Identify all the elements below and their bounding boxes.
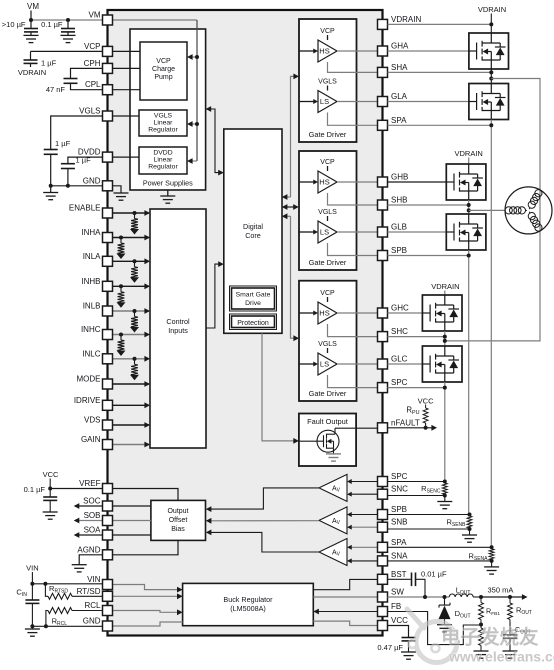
sense amp B (Av) — [319, 507, 347, 534]
svg-text:RSENC: RSENC — [421, 484, 441, 495]
flying capacitor 47nF wires — [71, 68, 103, 78]
svg-text:AGND: AGND — [77, 545, 100, 554]
svg-text:VCC: VCC — [43, 470, 59, 479]
svg-text:VCP: VCP — [156, 58, 171, 65]
pin SPA (right) — [378, 120, 388, 130]
svg-text:ROUT: ROUT — [516, 606, 532, 617]
svg-text:350 mA: 350 mA — [488, 586, 514, 595]
svg-text:MODE: MODE — [77, 375, 101, 384]
wire SOB output — [75, 520, 151, 522]
SPC node wire — [444, 382, 446, 482]
VCP charge pump block — [140, 42, 187, 100]
ground under power supplies block — [160, 196, 175, 203]
svg-text:SOC: SOC — [83, 497, 101, 506]
pin GLB (right) — [378, 227, 388, 237]
wire VREF to offset bias block — [113, 489, 179, 501]
pin SOC (left) — [103, 501, 113, 511]
svg-text:Regulator: Regulator — [148, 164, 178, 171]
pin SPB (right) — [378, 251, 388, 261]
svg-text:Drive: Drive — [245, 300, 261, 307]
pin SNA (right) — [378, 556, 388, 566]
ground under RSENA — [491, 561, 493, 567]
svg-text:RFB1: RFB1 — [486, 607, 500, 618]
svg-text:Control: Control — [166, 317, 190, 326]
VDRAIN wire phase C — [444, 291, 446, 296]
svg-text:>10 µF: >10 µF — [2, 20, 26, 29]
wire VIN pin to buck — [113, 585, 182, 590]
ground under 0.1uF cap — [61, 35, 76, 42]
VDRAIN wire phase A — [388, 23, 492, 25]
sense amp C SNC input — [349, 493, 378, 495]
svg-text:RT/SD: RT/SD — [77, 587, 101, 596]
flying capacitor 47nF — [64, 79, 78, 84]
pin DVDD (left) — [103, 152, 113, 162]
low-side MOSFET QC2 — [422, 346, 462, 382]
VCC bypass cap 0.47uF — [388, 626, 409, 638]
pin SNC (right) — [378, 489, 388, 499]
svg-text:GLA: GLA — [391, 92, 408, 101]
svg-text:Buck Regulator: Buck Regulator — [223, 595, 273, 604]
svg-text:Gate Driver: Gate Driver — [309, 258, 347, 267]
gate driver A LS buffer — [318, 91, 337, 113]
ground at VIN cluster — [31, 626, 33, 629]
arrow into gate driver A — [293, 74, 299, 80]
svg-text:Fault Output: Fault Output — [307, 417, 348, 426]
SPA node wire — [490, 120, 492, 548]
sense resistor RSENB — [467, 516, 472, 528]
wire buck to BST pin — [313, 579, 377, 589]
svg-text:SW: SW — [391, 588, 404, 597]
power supplies block ground stub — [167, 190, 169, 196]
svg-text:AV: AV — [332, 518, 341, 526]
feedback resistor RFB1 — [480, 597, 482, 603]
IC body (DRV8305 main outline) — [108, 10, 383, 636]
svg-text:VCP: VCP — [320, 159, 335, 166]
ground under DOUT — [437, 625, 452, 632]
pin GND (left) — [103, 181, 113, 191]
svg-text:INHB: INHB — [81, 277, 100, 286]
wire VDS to control inputs — [113, 424, 150, 426]
svg-text:SOB: SOB — [84, 511, 101, 520]
digital core to driver C bus — [291, 216, 298, 338]
wire GND pin to buck — [113, 622, 183, 626]
svg-text:GAIN: GAIN — [81, 435, 101, 444]
wire SOC output — [75, 505, 151, 507]
wire AGND to offset bias block — [113, 540, 179, 554]
svg-text:VDS: VDS — [84, 416, 100, 425]
svg-text:AV: AV — [332, 550, 341, 558]
sense amp C output wire — [208, 488, 319, 509]
gate driver B HS output wire — [337, 181, 378, 183]
svg-text:VGLS: VGLS — [318, 79, 337, 86]
pin INLB (left) — [103, 306, 113, 316]
svg-text:HS: HS — [319, 309, 329, 318]
control inputs block — [150, 209, 206, 448]
sense resistor RSENA — [489, 549, 494, 560]
svg-text:1 µF: 1 µF — [76, 156, 92, 165]
digital core block — [224, 129, 282, 333]
sense amp B SNB input — [349, 526, 378, 528]
gate driver C source-return wire — [328, 324, 378, 337]
wire RT/SD pin to buck — [113, 595, 182, 597]
pin IDRIVE (left) — [103, 400, 113, 410]
pin GLA (right) — [378, 97, 388, 107]
gate driver B source-return wire — [328, 193, 378, 205]
pulldown resistor on INHB — [119, 284, 123, 288]
pin INHC (left) — [103, 330, 113, 340]
gate driver A source-return wire — [328, 62, 378, 72]
sense amp B SPB input — [349, 514, 378, 516]
digital core to fault output wire — [262, 333, 297, 441]
watermark logo+text (decorative overlay) — [407, 609, 554, 665]
wire buck to SW pin — [313, 596, 377, 598]
low-side MOSFET QB2 — [446, 214, 486, 250]
pin SOB (left) — [103, 516, 113, 526]
pin SNB (right) — [378, 522, 388, 532]
svg-text:CPH: CPH — [84, 59, 101, 68]
svg-text:VGLS: VGLS — [318, 341, 337, 348]
wire INHC to control inputs — [113, 334, 150, 336]
svg-text:SPB: SPB — [391, 246, 407, 255]
pulldown resistor on ENABLE — [133, 211, 137, 215]
gate driver B HS buffer — [318, 171, 337, 193]
wire MODE to control inputs — [113, 383, 150, 385]
internal ground at GND pin — [114, 193, 129, 200]
svg-text:(LM5008A): (LM5008A) — [230, 604, 266, 613]
high-side MOSFET QA1 — [469, 33, 509, 69]
pin BST (right) — [378, 574, 388, 584]
svg-text:GND: GND — [83, 617, 101, 626]
buck regulator block U2 — [183, 583, 314, 625]
wire GLB to gate — [388, 231, 447, 233]
wire SPA to sense resistor — [388, 546, 492, 548]
pin SPC (right) — [378, 477, 388, 487]
VCP capacitor 1uF wire — [31, 50, 103, 52]
svg-text:INLB: INLB — [83, 302, 101, 311]
ground under 0.47uF cap — [401, 652, 416, 659]
pin CPL (left) — [103, 85, 113, 95]
feedback resistor RFB2 — [480, 625, 482, 629]
control-inputs to digital-core link — [206, 264, 222, 328]
svg-text:BST: BST — [391, 570, 407, 579]
branch arrow into DVDD regulator — [189, 160, 197, 162]
protection block — [230, 314, 277, 330]
VGLS linear regulator block — [139, 110, 187, 136]
wire GHC to gate — [388, 312, 423, 314]
svg-text:Linear: Linear — [154, 157, 174, 164]
core-driver B bidirectional link — [283, 206, 297, 208]
svg-text:1 µF: 1 µF — [41, 59, 57, 68]
ground under RSENB — [469, 529, 471, 535]
svg-text:Offset: Offset — [169, 517, 188, 524]
svg-text:0.47 µF: 0.47 µF — [377, 643, 403, 652]
pin SOA (left) — [103, 530, 113, 540]
wire SOA output — [75, 534, 151, 536]
wire ENABLE to control inputs — [113, 212, 150, 214]
high-side MOSFET QC1 — [422, 295, 462, 331]
output wire 350mA — [473, 596, 481, 598]
sense amp A SPA input — [349, 546, 378, 548]
ground at AGND — [72, 565, 87, 572]
svg-text:Core: Core — [245, 231, 261, 240]
gate driver B LS buffer — [318, 221, 337, 243]
GND return wire — [32, 625, 102, 627]
pulldown resistor on INHC — [119, 333, 123, 337]
VGLS capacitor 1uF wire — [51, 116, 103, 150]
DVDD capacitor 1uF — [61, 164, 75, 169]
svg-text:VCC: VCC — [418, 396, 434, 405]
gate driver C block — [299, 281, 357, 401]
svg-text:Digital: Digital — [243, 222, 263, 231]
svg-text:CIN: CIN — [16, 588, 27, 599]
pin SHA (right) — [378, 67, 388, 77]
svg-text:ENABLE: ENABLE — [69, 204, 101, 213]
gate driver C LS buffer — [318, 353, 337, 375]
gate driver B block — [299, 151, 357, 270]
svg-text:VREF: VREF — [79, 479, 100, 488]
wire GHB to gate — [388, 181, 447, 183]
output offset bias block — [151, 500, 206, 540]
DVDD linear regulator block — [139, 147, 187, 174]
svg-text:VDRAIN: VDRAIN — [18, 68, 46, 77]
svg-text:GND: GND — [83, 176, 101, 185]
svg-text:GLB: GLB — [391, 223, 407, 232]
gate driver A HS output wire — [337, 50, 378, 52]
output resistor ROUT — [509, 597, 511, 603]
svg-text:INHC: INHC — [81, 325, 101, 334]
wire GLA to gate — [388, 101, 469, 103]
svg-text:0.1 µF: 0.1 µF — [24, 485, 46, 494]
svg-text:INLA: INLA — [83, 252, 101, 261]
phase A node wires — [490, 69, 492, 84]
phase C node wires — [444, 331, 446, 346]
wire VCP pin to charge pump — [113, 50, 141, 52]
svg-text:SPC: SPC — [391, 378, 408, 387]
svg-text:SHA: SHA — [391, 63, 408, 72]
pin CPH (left) — [103, 63, 113, 73]
arrow into fault output block — [293, 438, 299, 444]
wire GLC to gate — [388, 363, 423, 365]
gate driver A LS input wire — [299, 101, 314, 103]
pin nFAULT (right) — [378, 423, 388, 433]
resistor RRCL — [72, 610, 103, 612]
BST capacitor 0.01uF — [388, 578, 411, 580]
pulldown resistor on INHA — [119, 236, 123, 240]
pulldown resistor on INLA — [133, 259, 137, 263]
gate driver A HS input wire — [299, 50, 314, 52]
sense resistor RSENC — [442, 483, 447, 495]
svg-text:VCP: VCP — [320, 290, 335, 297]
pin ENABLE (left) — [103, 208, 113, 218]
wire SNC to sense resistor — [388, 495, 445, 497]
output inductor LOUT — [449, 594, 473, 597]
svg-text:VDRAIN: VDRAIN — [391, 15, 421, 24]
svg-text:GHA: GHA — [391, 42, 409, 51]
svg-text:VIN: VIN — [87, 575, 101, 584]
gate driver C HS output wire — [337, 312, 378, 314]
VIN supply wire — [31, 572, 33, 584]
svg-text:GHC: GHC — [391, 304, 409, 313]
pin INLA (left) — [103, 256, 113, 266]
feedback arrow C into core — [283, 215, 291, 217]
svg-text:LOUT: LOUT — [456, 586, 471, 597]
pin FB (right) — [378, 607, 388, 617]
svg-text:VDRAIN: VDRAIN — [478, 5, 506, 14]
input capacitor CIN — [31, 584, 33, 600]
pin GND (left) — [103, 621, 113, 631]
sense amp A output wire — [208, 532, 319, 552]
pin RCL (left) — [103, 606, 113, 616]
svg-text:INHA: INHA — [81, 228, 101, 237]
pin GAIN (left) — [103, 440, 113, 450]
phase B node wires — [468, 200, 470, 214]
svg-text:电子发烧友: 电子发烧友 — [441, 626, 539, 649]
pin AGND (left) — [103, 550, 113, 560]
svg-text:VM: VM — [89, 11, 101, 20]
svg-text:VCC: VCC — [391, 616, 408, 625]
branch arrow into charge pump — [189, 56, 197, 58]
wire SPC to sense resistor — [388, 481, 445, 483]
ground under RSENC — [444, 496, 446, 502]
pullup resistor RPU — [425, 405, 427, 409]
svg-text:SNC: SNC — [391, 485, 408, 494]
gate driver B HS input wire — [299, 181, 314, 183]
pin VDRAIN (right) — [378, 19, 388, 29]
pin INLC (left) — [103, 354, 113, 364]
svg-text:DVDD: DVDD — [153, 150, 172, 157]
svg-text:Gate Driver: Gate Driver — [309, 130, 347, 139]
svg-text:0.1 µF: 0.1 µF — [41, 20, 63, 29]
VGLS capacitor 1uF — [44, 150, 58, 155]
pin MODE (left) — [103, 379, 113, 389]
fault output NMOS symbol — [299, 428, 335, 454]
gate driver A HS buffer — [318, 40, 337, 62]
svg-text:VM: VM — [27, 2, 39, 11]
svg-text:VGLS: VGLS — [318, 209, 337, 216]
nFAULT output wire — [388, 427, 435, 429]
svg-text:RRTSD: RRTSD — [49, 584, 68, 595]
wire GAIN to control inputs — [113, 444, 150, 446]
wire SNB to sense resistor — [388, 528, 470, 530]
SPB node wire — [468, 250, 470, 515]
FB routing wire — [388, 612, 482, 645]
external ground (caps) — [50, 186, 52, 193]
pulldown resistor on INLC — [133, 357, 137, 361]
sense amp B output wire — [208, 520, 319, 522]
svg-text:1 µF: 1 µF — [55, 139, 71, 148]
AGND ground wire — [79, 555, 102, 565]
svg-text:SOA: SOA — [84, 526, 102, 535]
svg-text:Output: Output — [167, 508, 188, 515]
gate driver C LS input wire — [299, 363, 314, 365]
svg-text:CPL: CPL — [85, 80, 101, 89]
ground under bulk cap — [24, 35, 39, 42]
wire GHA to gate — [388, 50, 469, 52]
svg-text:VCP: VCP — [84, 42, 100, 51]
ground under VREF cap — [43, 512, 58, 519]
svg-text:DOUT: DOUT — [455, 609, 471, 620]
phase B to motor wire — [469, 209, 505, 211]
svg-text:Charge: Charge — [152, 66, 175, 73]
branch arrow into VGLS regulator — [189, 123, 197, 125]
sense amp C (Av) — [319, 474, 347, 501]
svg-text:VIN: VIN — [26, 564, 39, 573]
svg-text:VCP: VCP — [320, 28, 335, 35]
wire INLC to control inputs — [113, 358, 150, 360]
gate driver A low-source-return wire — [328, 113, 378, 126]
svg-text:0.01 µF: 0.01 µF — [421, 570, 447, 579]
gate driver C HS input wire — [299, 312, 314, 314]
wire VGLS pin to regulator — [113, 115, 140, 117]
svg-text:Gate Driver: Gate Driver — [309, 389, 347, 398]
digital core to driver A bus — [291, 76, 298, 197]
fault NMOS drain wire to nFAULT pin — [335, 427, 378, 429]
pin VCP (left) — [103, 46, 113, 56]
svg-text:Power Supplies: Power Supplies — [143, 179, 193, 188]
svg-text:IDRIVE: IDRIVE — [74, 396, 101, 405]
svg-text:Regulator: Regulator — [148, 127, 178, 134]
svg-text:SPA: SPA — [391, 116, 407, 125]
pin VCC (right) — [378, 621, 388, 631]
wire SNA to sense resistor — [388, 560, 492, 562]
pin RT/SD (left) — [103, 591, 113, 601]
gate driver A LS output wire — [337, 101, 378, 103]
wire INLA to control inputs — [113, 260, 150, 262]
svg-text:SHC: SHC — [391, 327, 408, 336]
low-side MOSFET QA2 — [469, 84, 509, 120]
svg-text:LS: LS — [320, 228, 329, 237]
SW output wire — [388, 596, 450, 598]
gate driver C HS buffer — [318, 302, 337, 324]
fault output block — [299, 414, 356, 467]
resistor RRTSD — [45, 584, 48, 597]
svg-text:www.elecfans.com: www.elecfans.com — [448, 649, 554, 665]
svg-text:HS: HS — [319, 47, 329, 56]
high-side MOSFET QB1 — [446, 164, 486, 200]
wire CPL pin to charge pump — [113, 89, 141, 91]
motor M1 — [505, 187, 552, 234]
svg-text:HS: HS — [319, 178, 329, 187]
svg-text:47 nF: 47 nF — [46, 85, 66, 94]
svg-text:RSENB: RSENB — [446, 518, 466, 529]
pin VM (left) — [103, 15, 113, 25]
pin VIN (left) — [103, 580, 113, 590]
VM supply wire — [30, 11, 32, 21]
svg-text:SHB: SHB — [391, 196, 407, 205]
svg-text:SPA: SPA — [391, 538, 407, 547]
svg-text:LS: LS — [320, 360, 329, 369]
svg-text:VDRAIN: VDRAIN — [431, 282, 459, 291]
svg-text:VGLS: VGLS — [79, 107, 100, 116]
pin INHA (left) — [103, 233, 113, 243]
ground under COUT — [503, 651, 518, 658]
svg-text:Smart Gate: Smart Gate — [236, 292, 271, 299]
wire INHA to control inputs — [113, 237, 150, 239]
svg-text:RPU: RPU — [406, 406, 419, 417]
pulldown resistor on INLB — [133, 309, 137, 313]
power supplies block outline — [130, 29, 206, 190]
svg-text:SPC: SPC — [391, 472, 408, 481]
DVDD capacitor 1uF wire — [68, 157, 103, 164]
wire INLB to control inputs — [113, 310, 150, 312]
VREF bypass cap 0.1uF — [49, 489, 51, 498]
svg-text:LS: LS — [320, 97, 329, 106]
pin SHB (right) — [378, 200, 388, 210]
wire DVDD pin to regulator — [113, 156, 140, 158]
wire SPB to sense resistor — [388, 514, 470, 516]
svg-text:Pump: Pump — [154, 74, 172, 81]
wire RCL pin to buck — [113, 611, 182, 613]
